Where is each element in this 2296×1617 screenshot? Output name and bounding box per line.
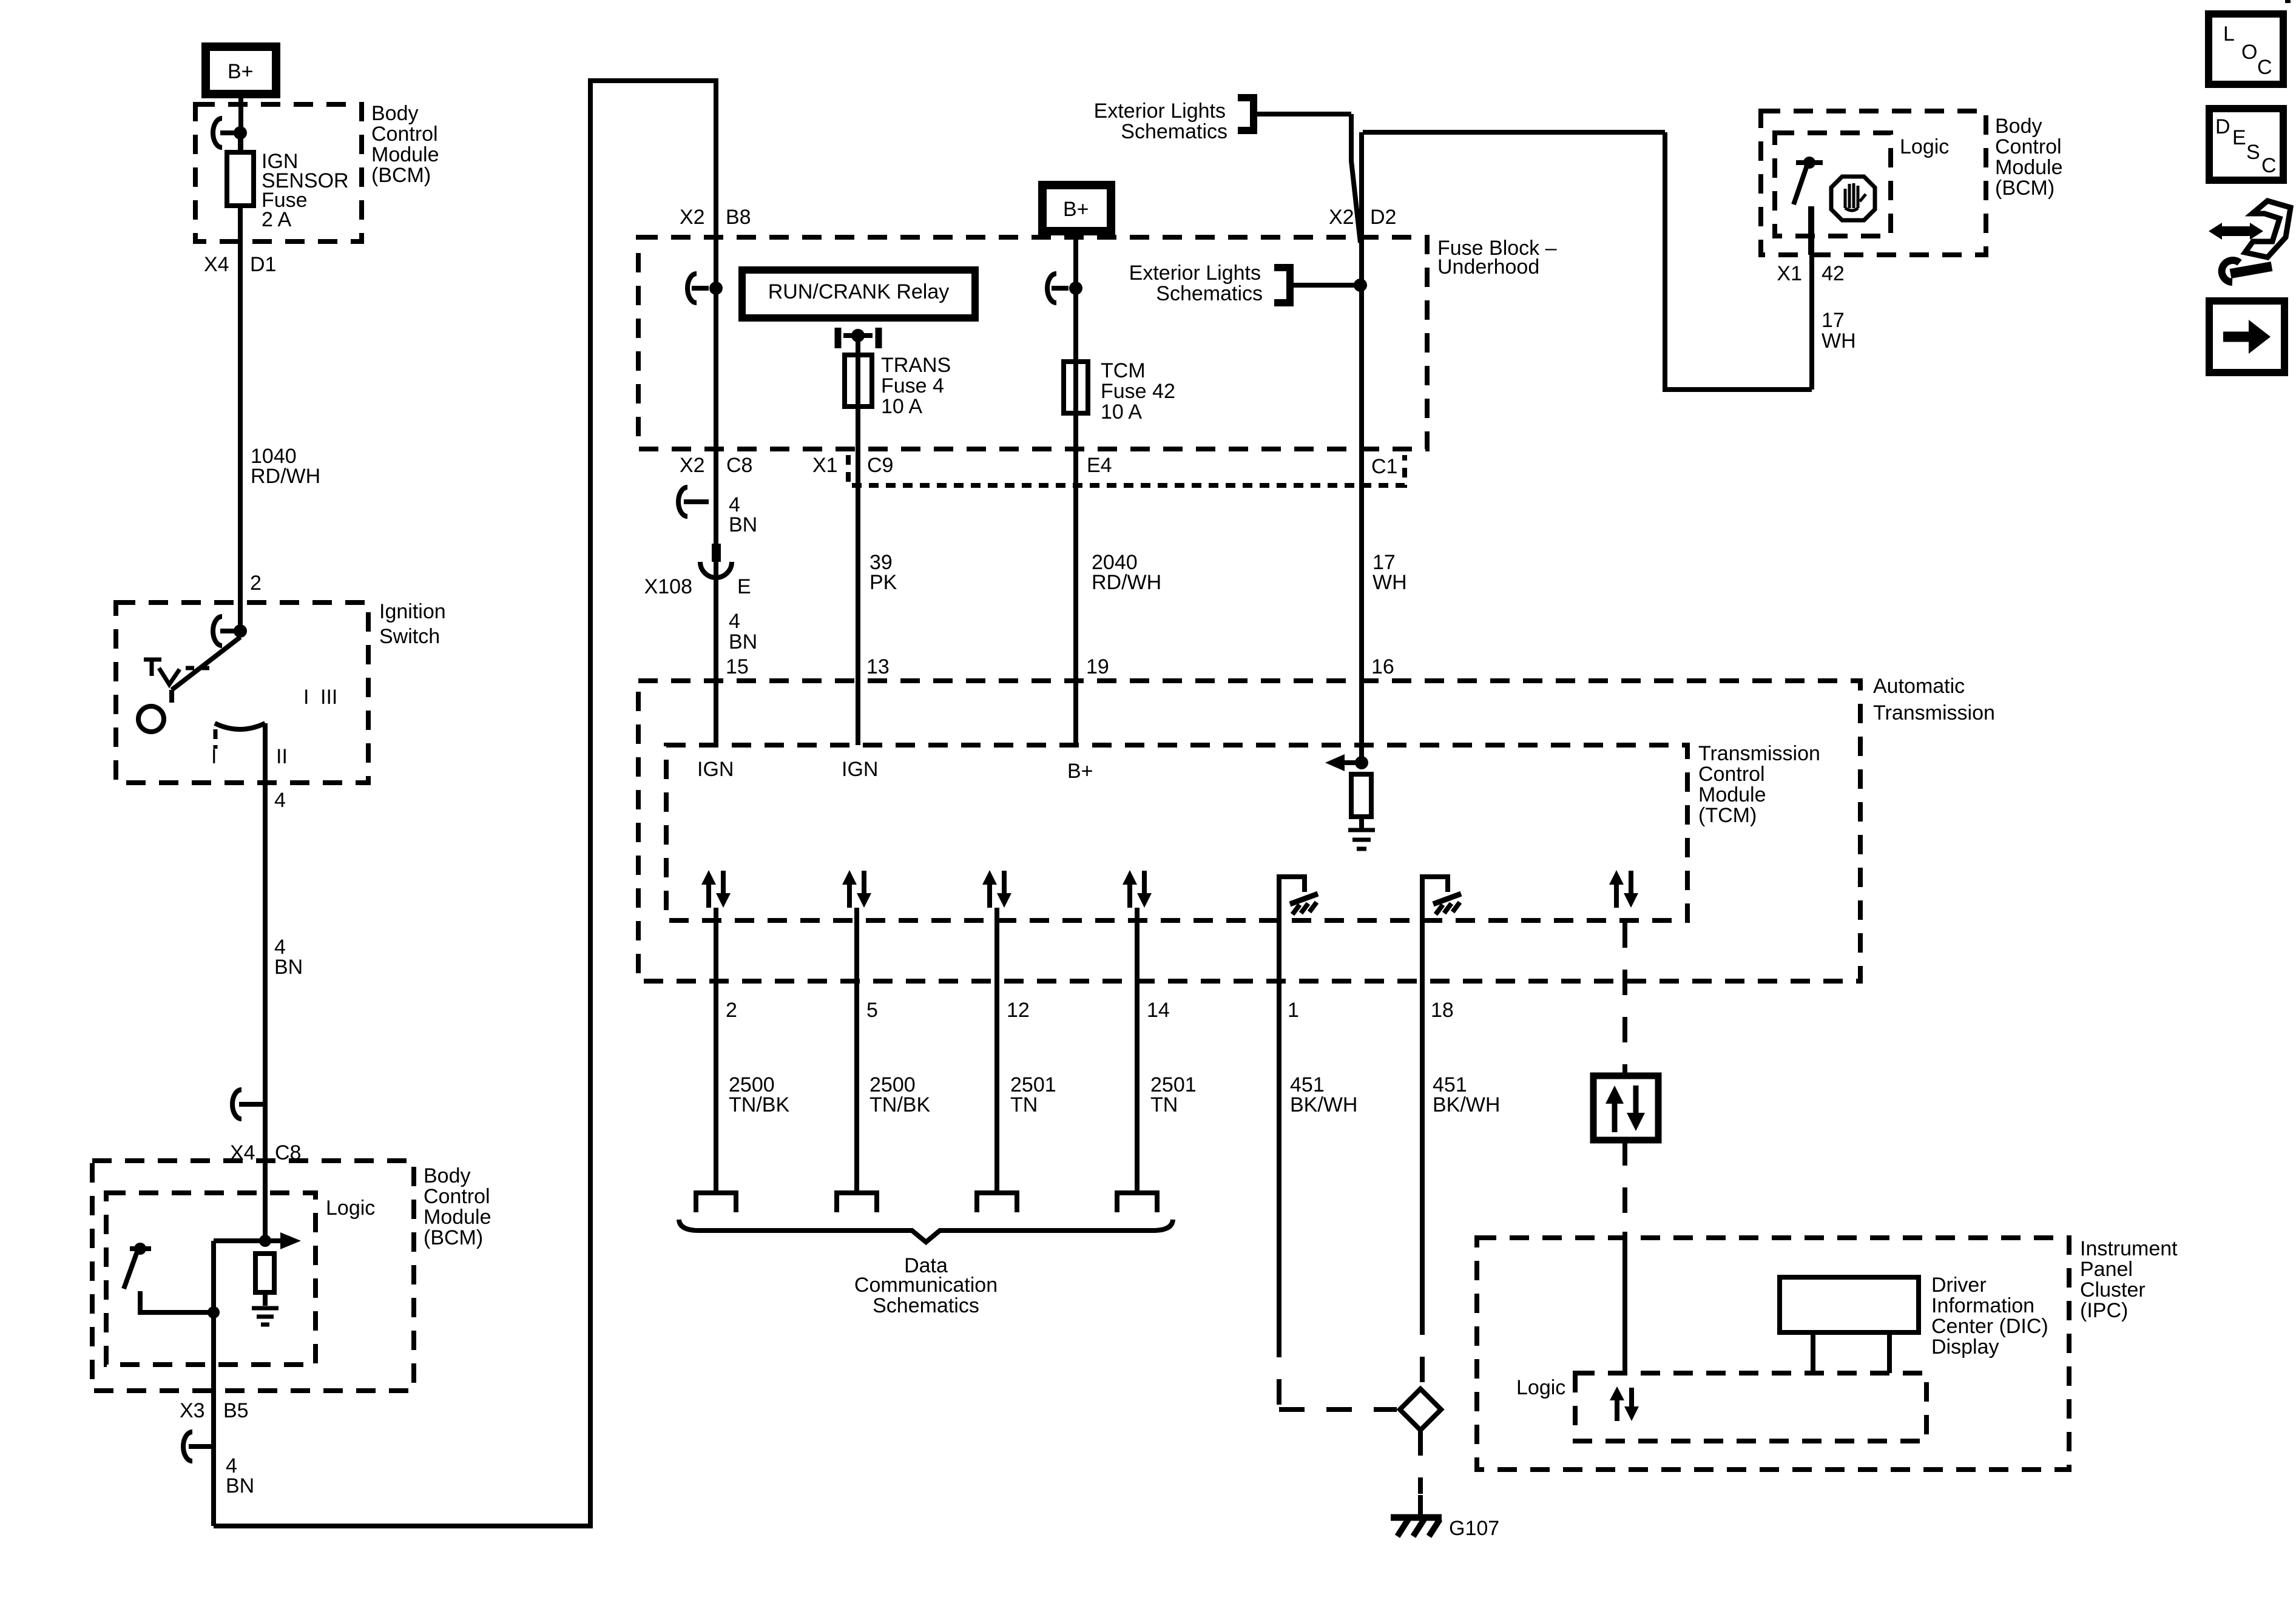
BCM box 2 (dashed) — [92, 1161, 414, 1391]
svg-text:Body: Body — [424, 1164, 471, 1187]
svg-text:Control: Control — [371, 123, 438, 146]
svg-text:17: 17 — [1822, 309, 1845, 332]
wire B+ to BCM fuse — [238, 94, 243, 152]
icon DESC — [2209, 109, 2283, 180]
svg-text:TCM: TCM — [1101, 359, 1146, 382]
arrows in IPC logic — [1610, 1386, 1639, 1421]
node with arrow in BCM2 logic — [214, 1232, 301, 1312]
automatic transmission label — [1873, 675, 1995, 724]
svg-text:Transmission: Transmission — [1698, 742, 1820, 765]
splice diamond — [1400, 1389, 1441, 1430]
exterior lights schematics tag (in fuse block) — [1129, 262, 1367, 306]
svg-text:Control: Control — [1698, 763, 1765, 786]
IPC label — [2080, 1237, 2178, 1322]
ignition switch label — [379, 600, 446, 648]
svg-text:Cluster: Cluster — [2080, 1278, 2146, 1301]
svg-text:(BCM): (BCM) — [371, 164, 431, 187]
svg-text:10 A: 10 A — [1101, 400, 1142, 424]
svg-text:TN: TN — [1150, 1093, 1178, 1116]
resistor in BCM2 logic — [255, 1254, 274, 1306]
svg-text:15: 15 — [726, 655, 749, 678]
svg-text:Control: Control — [424, 1185, 490, 1208]
connector + junction at B8 — [687, 274, 723, 303]
connector symbol at switch pin 2 — [213, 616, 247, 646]
internal node arrow at pin 16 — [1325, 754, 1368, 771]
wire label 4 BN (below X108) — [729, 610, 757, 653]
wire slant into X2 D2 — [1351, 114, 1360, 243]
svg-text:X4: X4 — [204, 253, 229, 276]
wire label 2501 TN (pin 14) — [1150, 1073, 1197, 1116]
internal resistor at pin 16 — [1351, 774, 1371, 829]
pin labels C8 X1 C9 E4 C1 — [680, 454, 1397, 478]
DIC label — [1931, 1274, 2048, 1359]
TCM box (dashed) — [666, 745, 1687, 920]
svg-text:Module: Module — [1995, 156, 2063, 179]
svg-text:2: 2 — [250, 572, 262, 595]
wire label 4 BN — [226, 1454, 254, 1497]
svg-text:E4: E4 — [1087, 454, 1112, 477]
connector symbol X3 B5 — [183, 1432, 211, 1461]
wire into IPC — [1622, 1232, 1627, 1373]
exterior lights schematics tag (top) — [1094, 94, 1351, 143]
svg-text:X1: X1 — [1777, 262, 1802, 285]
wire label 451 BK/WH (pin 18) — [1433, 1073, 1500, 1116]
data communication schematics label — [854, 1254, 998, 1317]
IPC logic box (dashed) — [1575, 1373, 1926, 1441]
data arrows column 1 — [701, 870, 731, 908]
svg-text:IGN: IGN — [842, 758, 878, 781]
svg-text:D: D — [2215, 115, 2230, 138]
wire BCM2 output — [211, 1312, 216, 1526]
svg-text:Panel: Panel — [2080, 1258, 2133, 1281]
data arrows column 4 — [1123, 870, 1152, 908]
BCM1 label — [371, 102, 439, 187]
svg-text:E: E — [2232, 126, 2246, 149]
svg-text:Control: Control — [1995, 135, 2062, 158]
svg-text:13: 13 — [866, 655, 890, 678]
svg-text:Body: Body — [371, 102, 419, 125]
svg-text:C: C — [2261, 154, 2277, 177]
svg-text:TN: TN — [1010, 1093, 1038, 1116]
svg-text:(IPC): (IPC) — [2080, 1299, 2128, 1322]
svg-text:Information: Information — [1931, 1294, 2034, 1317]
svg-text:Automatic: Automatic — [1873, 675, 1965, 698]
svg-text:10 A: 10 A — [881, 395, 922, 418]
long return wire to fuse block — [214, 81, 716, 1526]
ground G107 — [1391, 1517, 1499, 1540]
TCM pin labels 15 13 19 16 — [726, 655, 1394, 678]
icon connector repair — [2209, 201, 2291, 282]
pin labels X4 D1 — [204, 253, 276, 276]
svg-text:Body: Body — [1995, 115, 2042, 138]
wire label 2500 TN/BK (pin 2) — [729, 1073, 789, 1116]
wire diamond to G107 — [1418, 1430, 1423, 1514]
svg-text:1: 1 — [1288, 999, 1299, 1022]
svg-text:Schematics: Schematics — [1121, 120, 1227, 143]
svg-text:Exterior Lights: Exterior Lights — [1094, 100, 1226, 123]
wire label 2040 RD/WH — [1092, 551, 1161, 594]
terminal pin 14 — [1117, 1193, 1157, 1212]
BCM box 1 (dashed) — [195, 104, 362, 241]
svg-text:L: L — [2223, 22, 2235, 46]
wire label 2500 TN/BK (pin 5) — [869, 1073, 930, 1116]
BCM2 label — [424, 1164, 491, 1249]
automatic transmission box (dashed) — [638, 681, 1860, 981]
svg-text:Switch: Switch — [379, 625, 440, 648]
position labels I III — [303, 686, 337, 709]
internal chassis ground pin 1 — [1279, 877, 1318, 920]
wire label 4 BN (above X108) — [729, 493, 757, 536]
data wire pin 12 — [994, 908, 999, 1193]
svg-text:C1: C1 — [1371, 455, 1397, 478]
TCM fuse 42 — [1064, 362, 1088, 413]
svg-text:4: 4 — [274, 789, 286, 812]
svg-text:TN/BK: TN/BK — [869, 1093, 930, 1116]
brace data communication — [679, 1220, 1173, 1242]
pin labels X2 B8 — [680, 206, 751, 229]
pin 2 label — [250, 572, 262, 595]
connector symbol at C8 below fuse block — [678, 487, 709, 516]
OFF position circle — [138, 706, 164, 732]
svg-text:I: I — [303, 686, 309, 709]
DIC display — [1780, 1277, 1919, 1373]
svg-text:RD/WH: RD/WH — [1092, 571, 1161, 594]
svg-text:TN/BK: TN/BK — [729, 1093, 789, 1116]
internal switch in BCM3 — [1794, 157, 1823, 255]
svg-text:G107: G107 — [1449, 1517, 1499, 1540]
svg-text:BK/WH: BK/WH — [1290, 1093, 1357, 1116]
svg-text:B8: B8 — [726, 206, 751, 229]
wire 17 WH main — [1359, 132, 1364, 763]
pin labels X1 42 — [1777, 262, 1844, 285]
wire relay to TCM pin 13 — [856, 336, 860, 745]
svg-text:X2: X2 — [680, 206, 705, 229]
wire switch output pin 4 — [263, 723, 268, 1241]
svg-text:B+: B+ — [228, 60, 254, 83]
svg-text:(TCM): (TCM) — [1698, 804, 1757, 827]
BCM box 3 (dashed, top right) — [1761, 111, 1986, 255]
fuse block underhood box (dashed) — [638, 237, 1427, 449]
switch wiper arc — [215, 723, 265, 729]
svg-text:C9: C9 — [867, 454, 893, 477]
svg-text:4: 4 — [729, 610, 740, 633]
data arrows column 2 — [842, 870, 871, 908]
connector symbol X4 C8 — [232, 1090, 265, 1119]
wire label 17 WH — [1373, 551, 1407, 594]
wire B8 through fuse block — [714, 239, 718, 745]
fuse block label — [1437, 237, 1557, 279]
svg-text:12: 12 — [1007, 999, 1030, 1022]
svg-text:Fuse 42: Fuse 42 — [1101, 380, 1175, 403]
svg-text:B+: B+ — [1063, 198, 1089, 221]
wire pin 1 451 BK/WH — [1279, 920, 1397, 1409]
svg-text:Underhood: Underhood — [1437, 255, 1539, 279]
data wire pin 5 — [854, 908, 859, 1193]
data wire pin 2 — [714, 908, 718, 1193]
TCM fuse label — [1101, 359, 1175, 424]
connector + junction at TCM fuse — [1047, 274, 1082, 303]
svg-text:BK/WH: BK/WH — [1433, 1093, 1500, 1116]
svg-text:X108: X108 — [644, 575, 692, 598]
pin labels X3 B5 — [180, 1399, 249, 1422]
key symbol — [144, 660, 209, 684]
svg-text:RUN/CRANK Relay: RUN/CRANK Relay — [768, 280, 950, 303]
IPC box (dashed) — [1477, 1238, 2069, 1470]
svg-text:Fuse 4: Fuse 4 — [881, 374, 944, 397]
svg-text:BN: BN — [729, 630, 757, 653]
svg-text:Schematics: Schematics — [873, 1294, 979, 1317]
svg-text:Module: Module — [1698, 783, 1766, 806]
svg-text:IGN: IGN — [697, 758, 734, 781]
svg-text:TRANS: TRANS — [881, 354, 951, 377]
svg-text:Module: Module — [424, 1206, 491, 1229]
svg-text:III: III — [320, 686, 337, 709]
svg-text:O: O — [2241, 41, 2257, 64]
pin labels X2 D2 — [1329, 206, 1396, 229]
dashed tick position I — [211, 729, 217, 768]
svg-text:Transmission: Transmission — [1873, 701, 1995, 724]
svg-text:BN: BN — [274, 956, 303, 979]
svg-text:WH: WH — [1373, 571, 1407, 594]
svg-text:D1: D1 — [250, 253, 276, 276]
wire label 451 BK/WH (pin 1) — [1290, 1073, 1357, 1116]
B+ power symbol (top left) — [206, 47, 276, 94]
wire B+ to TCM fuse — [1073, 231, 1078, 745]
svg-text:C8: C8 — [726, 454, 752, 477]
IPC logic label — [1516, 1376, 1565, 1399]
icon LOC — [2209, 14, 2283, 84]
svg-text:Communication: Communication — [854, 1274, 998, 1297]
svg-text:C: C — [2257, 56, 2272, 79]
svg-text:Exterior Lights: Exterior Lights — [1129, 262, 1261, 285]
svg-text:BN: BN — [729, 513, 757, 536]
data arrows column 5 (right) — [1609, 870, 1638, 908]
ground symbol in BCM2 — [252, 1308, 279, 1325]
svg-text:(BCM): (BCM) — [424, 1226, 483, 1249]
internal ground at pin 16 — [1348, 830, 1375, 849]
internal chassis ground pin 18 — [1422, 877, 1461, 920]
svg-text:42: 42 — [1822, 262, 1845, 285]
logic label — [326, 1197, 375, 1220]
connector symbol at BCM1 internal node — [213, 118, 247, 147]
page corner artifact — [2285, 0, 2291, 3]
TRANS fuse label — [881, 354, 951, 418]
svg-text:(BCM): (BCM) — [1995, 177, 2055, 200]
wire label 2501 TN (pin 12) — [1010, 1073, 1056, 1116]
wire label 4 BN — [274, 936, 303, 979]
BCM3 logic label — [1900, 135, 1949, 158]
svg-text:2: 2 — [726, 999, 737, 1022]
svg-text:D2: D2 — [1370, 206, 1396, 229]
svg-text:Logic: Logic — [326, 1197, 375, 1220]
position label II — [276, 745, 288, 768]
svg-text:X1: X1 — [812, 454, 838, 477]
wire label 1040 RD/WH — [251, 445, 320, 488]
internal switch in BCM2 logic — [124, 1243, 220, 1318]
ignition switch box (dashed) — [116, 603, 368, 783]
svg-text:I: I — [211, 745, 217, 768]
switch blade — [172, 637, 240, 703]
svg-text:Driver: Driver — [1931, 1274, 1987, 1297]
wire label 17 WH (BCM3) — [1822, 309, 1856, 353]
svg-text:Logic: Logic — [1900, 135, 1949, 158]
svg-text:Display: Display — [1931, 1335, 1999, 1359]
wire label 39 PK — [869, 551, 897, 594]
svg-text:PK: PK — [869, 571, 897, 594]
pin 4 label — [274, 789, 286, 812]
fuse value label — [262, 150, 349, 231]
terminal pin 2 — [696, 1193, 736, 1212]
serial data box with arrows — [1593, 1076, 1658, 1140]
BCM3 label — [1995, 115, 2063, 200]
svg-text:Center (DIC): Center (DIC) — [1931, 1315, 2048, 1338]
svg-text:X2: X2 — [1329, 206, 1354, 229]
svg-text:Ignition: Ignition — [379, 600, 446, 623]
svg-text:5: 5 — [866, 999, 878, 1022]
svg-text:14: 14 — [1147, 999, 1170, 1022]
svg-text:X2: X2 — [680, 454, 705, 477]
svg-text:B+: B+ — [1067, 760, 1093, 783]
RUN/CRANK relay box — [742, 270, 975, 318]
data arrows column 3 — [982, 870, 1011, 908]
svg-text:16: 16 — [1371, 655, 1394, 678]
svg-text:B5: B5 — [223, 1399, 249, 1422]
fuse IGN SENSOR 2A — [227, 137, 254, 630]
svg-text:Module: Module — [371, 143, 439, 166]
svg-text:II: II — [276, 745, 288, 768]
svg-text:2 A: 2 A — [262, 208, 291, 231]
svg-text:19: 19 — [1086, 655, 1109, 678]
svg-text:Instrument: Instrument — [2080, 1237, 2178, 1260]
BCM2 logic box — [106, 1193, 316, 1365]
svg-text:X3: X3 — [180, 1399, 205, 1422]
svg-text:Logic: Logic — [1516, 1376, 1565, 1399]
terminal pin 5 — [837, 1193, 877, 1212]
data wire pin 14 — [1135, 908, 1140, 1193]
svg-text:BN: BN — [226, 1474, 254, 1497]
TCM label — [1698, 742, 1820, 827]
svg-text:WH: WH — [1822, 329, 1856, 353]
B+ power symbol (fuse block) — [1042, 185, 1111, 231]
TRANS fuse 4 — [845, 355, 872, 407]
svg-text:E: E — [737, 575, 751, 598]
BCM3 logic box — [1775, 133, 1891, 236]
TCM output pin numbers — [726, 999, 1454, 1022]
dashed wire TCM to IPC — [1622, 922, 1627, 1232]
wire BCM3 to fuse block — [1363, 132, 1812, 390]
terminal pin 12 — [977, 1193, 1017, 1212]
relay output contact — [838, 328, 879, 348]
X1 connector dotted outline — [848, 455, 1405, 485]
svg-text:18: 18 — [1431, 999, 1454, 1022]
wire pin 18 451 BK/WH — [1420, 920, 1425, 1386]
svg-text:Schematics: Schematics — [1156, 282, 1263, 305]
svg-text:RD/WH: RD/WH — [251, 465, 320, 488]
pin labels X4 C8 — [230, 1141, 301, 1164]
splice connector X108 — [644, 544, 751, 598]
svg-text:S: S — [2246, 141, 2260, 164]
TCM input labels — [697, 758, 1093, 783]
icon forward arrow — [2209, 301, 2284, 373]
stop hand icon — [1831, 177, 1875, 220]
